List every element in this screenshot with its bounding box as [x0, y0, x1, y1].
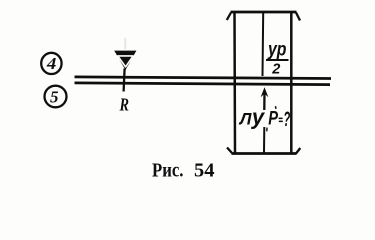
column top edge: [231, 11, 297, 14]
column bottom edge: [232, 152, 297, 155]
node 4 (circled): [41, 53, 61, 74]
support faint guide above triangle: [124, 38, 126, 49]
support triangle outline: [114, 51, 136, 70]
svg-text:Р: Р: [268, 109, 278, 130]
arrow up at center line lower: [263, 91, 266, 110]
svg-text:2: 2: [271, 61, 280, 77]
column right edge: [290, 13, 293, 154]
svg-text:54: 54: [194, 160, 215, 182]
wire beam top line: [75, 77, 332, 79]
svg-text:R: R: [119, 95, 129, 115]
column top-left tick: [227, 13, 231, 21]
speckle tick above Р: [274, 106, 277, 109]
node 5 (circled): [45, 86, 67, 108]
column top-right tick: [296, 13, 300, 21]
column center line lower below text: [263, 127, 265, 153]
support stem: [124, 69, 125, 92]
support triangle white channel: [118, 56, 133, 67]
fraction bar: [266, 59, 289, 61]
svg-text:5: 5: [50, 88, 59, 107]
column center line upper: [262, 13, 265, 76]
label LUR=? equals sign: [279, 118, 283, 120]
svg-text:4: 4: [46, 54, 57, 73]
svg-text:?: ?: [283, 108, 290, 131]
fraction yp/2 white backing: [265, 42, 289, 74]
speckle tick below у: [266, 128, 268, 132]
svg-text:ур: ур: [267, 40, 286, 61]
wire beam bottom line: [75, 83, 331, 85]
column bottom-left tick: [227, 148, 232, 154]
column left edge: [233, 13, 236, 154]
column bottom-right tick: [296, 148, 300, 154]
svg-text:Рис.: Рис.: [152, 160, 184, 182]
